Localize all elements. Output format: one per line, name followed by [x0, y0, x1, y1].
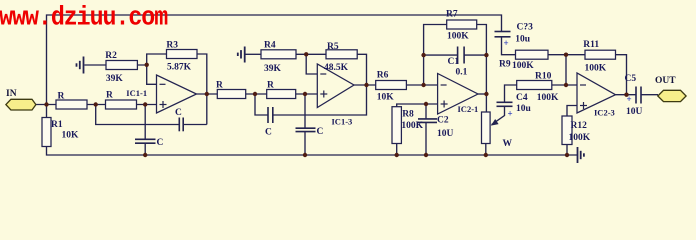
potentiometer W wiper arrowhead: [491, 119, 499, 126]
resistor R (stage2 second): [267, 90, 296, 99]
resistor R (stage2 first): [217, 90, 245, 99]
wire C1 right lead: [464, 54, 486, 56]
wire R10 to IC2-3 minus input: [552, 84, 577, 86]
wire C?3 bottom lead to R9: [502, 37, 516, 55]
svg-text:IN: IN: [6, 89, 17, 99]
svg-text:100K: 100K: [512, 61, 534, 71]
svg-text:100K: 100K: [569, 133, 591, 143]
svg-text:39K: 39K: [264, 64, 282, 74]
resistor R10: [517, 81, 552, 90]
resistor R (stage1 first): [56, 100, 87, 109]
svg-text:C4: C4: [516, 93, 528, 103]
potentiometer W body: [482, 112, 491, 144]
wire R9 to node to R11: [548, 54, 585, 56]
node stage2 output: [364, 83, 368, 87]
svg-text:R3: R3: [166, 41, 178, 51]
wire stage2 R to R: [246, 93, 267, 95]
svg-text:C: C: [317, 127, 324, 137]
wire R1 top lead: [46, 105, 48, 118]
node R9/R11: [564, 53, 568, 57]
op-amp IC1-3: [317, 64, 354, 108]
wire C2 top lead: [425, 104, 427, 119]
node IC2-1 output: [484, 92, 488, 96]
svg-text:R8: R8: [402, 109, 414, 119]
capacitor C stage2 shunt plates: [296, 127, 316, 129]
wire shunt cap C stage2 to ground rail: [304, 132, 306, 155]
resistor R8: [392, 107, 401, 144]
svg-text:100K: 100K: [537, 93, 559, 103]
node rail C2: [424, 153, 428, 157]
svg-text:5.87K: 5.87K: [167, 63, 192, 73]
wire C2 bottom lead: [425, 122, 427, 155]
node R6/R7 minus net of IC2-1: [421, 83, 425, 87]
svg-text:W: W: [503, 139, 513, 149]
svg-text:10u: 10u: [516, 104, 532, 114]
svg-text:0.1: 0.1: [456, 68, 468, 78]
svg-text:100K: 100K: [401, 121, 423, 131]
svg-text:100K: 100K: [585, 64, 607, 74]
svg-text:OUT: OUT: [655, 76, 676, 86]
svg-text:C1: C1: [448, 57, 460, 67]
capacitor C stage1 shunt plates: [135, 138, 156, 140]
svg-text:www.dziuu.com: www.dziuu.com: [0, 2, 168, 33]
op-amp IC2-1: [438, 74, 478, 115]
node stage1 between R and R: [94, 102, 98, 106]
node C1 left on loop: [421, 53, 425, 57]
svg-text:IC2-3: IC2-3: [594, 108, 615, 118]
svg-text:10U: 10U: [437, 129, 454, 139]
wire ground to R4: [245, 53, 261, 55]
node C2 plus input: [424, 102, 428, 106]
node rail R12: [565, 153, 569, 157]
wire R1 bottom lead to ground rail: [47, 147, 146, 156]
wire R8 bottom lead: [396, 144, 398, 156]
svg-text:C?3: C?3: [517, 22, 534, 32]
node stage1 output: [205, 92, 209, 96]
resistor R2: [106, 61, 137, 70]
wire feedback cap C stage2 right branch: [273, 85, 367, 115]
wire wiper of W to C4 bottom: [492, 106, 505, 124]
svg-text:C5: C5: [625, 74, 637, 84]
op-amp IC2-1 minus pin mark: [441, 84, 447, 86]
svg-text:C: C: [175, 108, 182, 118]
svg-text:39K: 39K: [106, 74, 124, 84]
wire R3 right lead down to stage1 output node: [197, 54, 207, 125]
capacitor C stage1 feedback plates: [178, 118, 180, 132]
wire R2 to node, up to R3, down to IC1-1 minus input: [137, 54, 166, 65]
wire C4 top lead up to R10: [505, 85, 517, 102]
node stage1 plus input: [143, 102, 147, 106]
svg-text:R4: R4: [264, 40, 276, 50]
svg-text:R11: R11: [583, 40, 599, 50]
svg-text:+: +: [504, 38, 509, 48]
node R4/R5 minus net: [304, 52, 308, 56]
resistor R3: [167, 50, 198, 59]
svg-text:C: C: [265, 128, 272, 138]
wire node down from R9/R11 to R10 output row: [565, 55, 567, 85]
node rail shunt C stage2: [303, 153, 307, 157]
svg-text:R: R: [267, 80, 274, 90]
node C1 right on loop: [484, 53, 488, 57]
wire R to op-amp IC1-1 plus input: [137, 104, 157, 106]
resistor R6: [376, 81, 407, 90]
node R10 minus net of IC2-3: [564, 83, 568, 87]
svg-text:10U: 10U: [626, 107, 643, 117]
svg-text:R7: R7: [446, 10, 458, 20]
port OUT tag: [658, 90, 686, 101]
svg-text:R5: R5: [327, 42, 339, 52]
wire R7 right lead down to IC2-1 output: [477, 25, 487, 95]
op-amp IC1-1 minus pin mark: [160, 83, 166, 85]
svg-text:R6: R6: [377, 70, 389, 80]
svg-text:R: R: [58, 92, 65, 102]
wire bottom ground rail: [145, 154, 577, 156]
node IC2-3 output: [624, 93, 628, 97]
wire feedback cap C stage1 left branch: [96, 105, 180, 125]
wire top feedback rail from input node to C?3: [47, 15, 502, 105]
svg-text:R: R: [106, 91, 113, 101]
ground symbol bottom rail: [577, 147, 579, 163]
capacitor C5 plates: [635, 87, 637, 104]
wire IC2-1 output: [478, 93, 486, 95]
svg-text:R12: R12: [571, 121, 588, 131]
svg-text:C2: C2: [437, 115, 449, 125]
resistor R11: [585, 50, 616, 59]
svg-text:100K: 100K: [447, 32, 469, 42]
op-amp IC2-3 minus pin mark: [580, 84, 586, 86]
wire IC1-3 output to R6: [354, 84, 376, 86]
wire R5 right lead down to stage2 output node: [357, 54, 366, 85]
node input junction: [44, 102, 48, 106]
wire R8 top lead to plus input of IC2-1: [397, 104, 438, 107]
node rail shunt C stage1: [143, 153, 147, 157]
svg-text:+: +: [627, 94, 632, 104]
capacitor C2 plates: [418, 118, 437, 120]
capacitor C4 plates: [497, 101, 513, 103]
svg-text:48.5K: 48.5K: [324, 63, 349, 73]
wire ground to R2: [85, 64, 107, 66]
wire shunt cap C stage1 to ground rail: [144, 143, 146, 155]
svg-text:IC1-1: IC1-1: [126, 88, 147, 98]
svg-text:R2: R2: [105, 51, 117, 61]
wire C1 left lead: [424, 54, 458, 56]
wire feedback cap C stage2 left branch: [255, 94, 268, 115]
wire shunt cap C stage2 branch: [304, 94, 306, 128]
wire shunt cap C stage1 branch: [144, 105, 146, 140]
wire R6 to IC2-1 minus input: [406, 84, 437, 86]
resistor R1: [42, 118, 51, 147]
wire potentiometer W bottom lead: [485, 144, 487, 156]
svg-text:+: +: [508, 109, 513, 119]
node rail R8: [395, 153, 399, 157]
svg-text:R10: R10: [535, 72, 552, 82]
wire node down to IC1-3 minus input: [306, 54, 317, 74]
svg-text:R: R: [216, 80, 223, 90]
wire C5 to OUT tag: [641, 94, 658, 96]
svg-text:10K: 10K: [62, 131, 80, 141]
wire R4 to node to R5: [296, 53, 326, 55]
ground symbol stage1 (left of R2): [76, 63, 78, 66]
wire stage2 R to IC1-3 plus input: [296, 93, 318, 95]
wire R12 top lead to IC2-3 plus input: [567, 106, 577, 117]
wire R7 C1 feedback loop left vertical: [424, 25, 447, 86]
wire R12 bottom lead to ground rail: [566, 145, 568, 156]
wire R to R stage1: [87, 104, 106, 106]
svg-text:C: C: [157, 138, 164, 148]
resistor R4: [261, 50, 296, 59]
port IN tag: [6, 99, 36, 110]
svg-text:10K: 10K: [377, 93, 395, 103]
op-amp IC2-1 plus pin mark: [441, 103, 448, 105]
wire feedback cap C stage1 right branch: [183, 124, 207, 126]
resistor R12: [562, 116, 572, 145]
wire IC2-1 output down to potentiometer W: [485, 94, 487, 112]
node rail W: [484, 153, 488, 157]
wire node to minus input IC1-1: [147, 65, 157, 84]
capacitor C1 plates: [457, 47, 459, 64]
resistor R (stage1 second): [106, 100, 137, 109]
op-amp IC1-1 plus pin mark: [160, 104, 167, 106]
wire IC1-1 output to node: [197, 93, 218, 95]
op-amp IC2-3: [577, 73, 616, 113]
svg-text:10u: 10u: [515, 34, 531, 44]
resistor R7: [447, 20, 477, 29]
op-amp IC1-1: [157, 75, 197, 113]
node R2/R3 minus net: [145, 63, 149, 67]
op-amp IC1-3 minus pin mark: [320, 73, 326, 75]
wire R11 right lead down to IC2-3 output: [616, 55, 627, 95]
node stage2 between R and R: [253, 92, 257, 96]
svg-text:IC1-3: IC1-3: [332, 117, 353, 127]
resistor R5: [326, 50, 357, 59]
wire IN tag to input node: [36, 104, 56, 106]
resistor R9: [516, 50, 549, 59]
wire IC2-3 output to C5: [616, 94, 637, 96]
svg-text:R1: R1: [51, 120, 63, 130]
capacitor C stage2 feedback plates: [267, 107, 269, 123]
capacitor C?3 plates: [495, 31, 511, 33]
op-amp IC2-3 plus pin mark: [580, 105, 587, 107]
ground symbol stage2 (left of R4): [237, 53, 239, 56]
op-amp IC1-3 plus pin mark: [320, 93, 327, 95]
svg-text:IC2-1: IC2-1: [458, 104, 479, 114]
node stage2 plus input: [303, 92, 307, 96]
svg-text:R9: R9: [499, 60, 511, 70]
